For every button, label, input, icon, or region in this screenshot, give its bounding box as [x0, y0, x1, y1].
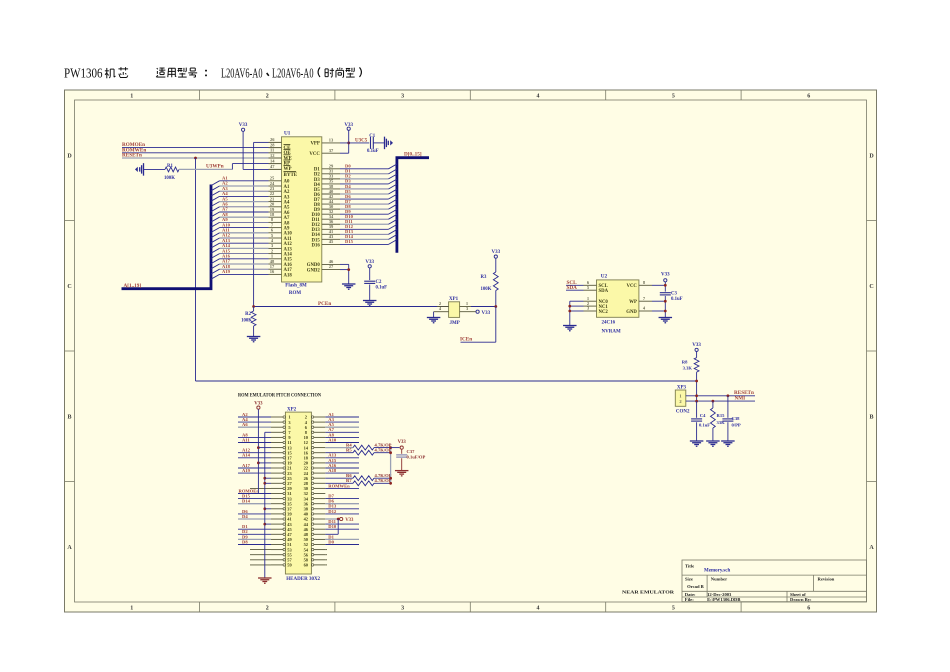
- XP2 pin 51: [271, 544, 283, 546]
- svg-text:3: 3: [401, 94, 404, 100]
- XP2 pin 52: [311, 543, 313, 545]
- svg-text:U1: U1: [284, 131, 291, 137]
- bus A[1..19]: [122, 185, 212, 289]
- XP2 pin 28: [311, 482, 313, 484]
- junction GND2: [347, 268, 350, 271]
- bus entry and wire A14: [211, 248, 220, 253]
- wire and bus entry D7: [340, 203, 389, 205]
- wire right D12: [325, 513, 359, 515]
- XP2 unconnected stub left: [250, 549, 271, 551]
- ground below R15: [706, 440, 720, 442]
- svg-text:XP1: XP1: [449, 297, 459, 302]
- bus entry and wire A8: [211, 217, 220, 222]
- wire right A18: [325, 472, 359, 474]
- U1 pin 18 A7: [269, 216, 282, 218]
- svg-text:D15: D15: [345, 239, 354, 244]
- U1 pin 34 D11: [322, 218, 340, 220]
- XP2 pin 33: [271, 498, 283, 500]
- U2 pin 5 SDA: [584, 289, 597, 291]
- wire rail to V33: [391, 447, 400, 449]
- U1 pin 17 A17: [269, 268, 282, 270]
- title block frame: [682, 560, 867, 602]
- svg-text:6: 6: [807, 94, 810, 100]
- svg-text:A10: A10: [328, 437, 337, 442]
- U1 pin 22 A3: [269, 195, 282, 197]
- U1 pin 31 D2: [322, 173, 340, 175]
- svg-text:Orcad B: Orcad B: [687, 584, 704, 589]
- svg-text:16: 16: [270, 269, 275, 274]
- bus entry and wire A19: [211, 274, 220, 279]
- svg-text:NEAR EMULATOR: NEAR EMULATOR: [622, 590, 675, 595]
- wire row7 to vertical: [258, 447, 271, 449]
- U1 pin 48 A16: [269, 263, 282, 265]
- wire left ROMOEn: [238, 493, 271, 495]
- svg-text:SDA: SDA: [599, 289, 609, 294]
- net SDA wire: [566, 289, 584, 291]
- svg-text:NC2: NC2: [599, 310, 609, 315]
- U1 pin 16 A18: [269, 273, 282, 275]
- junction row14: [263, 482, 266, 485]
- svg-text:0/PP: 0/PP: [732, 423, 741, 428]
- XP2 unconnected stub right: [325, 564, 327, 566]
- junction pullup row7: [389, 446, 392, 449]
- XP2 pin 10: [311, 436, 313, 438]
- XP2 unconnected stub right: [325, 554, 327, 556]
- wire left A6: [238, 426, 271, 428]
- sheet inner border: [75, 100, 867, 602]
- wire left A8: [238, 436, 271, 438]
- U1 pin 19 A6: [269, 211, 282, 213]
- svg-text:A14: A14: [242, 453, 251, 458]
- wire VPP to C1: [340, 142, 369, 144]
- svg-text:R15: R15: [717, 413, 726, 418]
- wire right D10: [325, 528, 359, 530]
- XP1 pin 2: [437, 306, 449, 308]
- junction row13: [263, 477, 266, 480]
- XP2 pin 26: [311, 477, 313, 479]
- svg-text:0.1uF: 0.1uF: [699, 423, 710, 428]
- svg-text:E:\PW1306.DDB: E:\PW1306.DDB: [707, 597, 740, 602]
- wire and bus entry D11: [340, 223, 389, 225]
- XP2 pin 19: [271, 462, 283, 464]
- svg-text:B: B: [869, 414, 873, 420]
- junction pullup row13: [389, 477, 392, 480]
- bus entry and wire A12: [211, 238, 220, 243]
- svg-text:VCC: VCC: [626, 284, 637, 289]
- ground right of C1: [384, 137, 386, 150]
- junction long RESETn wire: [695, 380, 698, 383]
- U2 pin 6 SCL: [584, 284, 597, 286]
- XP2 unconnected stub left: [250, 564, 271, 566]
- net PCEn wire: [254, 306, 449, 308]
- U1 pin 47 BYTE: [269, 168, 282, 170]
- svg-text:47: 47: [270, 164, 275, 169]
- XP2 pin 36: [311, 503, 313, 505]
- wire right A7: [325, 431, 359, 433]
- wire U3WPn step up to WP pin: [231, 164, 233, 170]
- XP2 pin 50: [311, 538, 313, 540]
- XP2 pin 45: [271, 528, 283, 530]
- XP2 pin 7: [271, 431, 283, 433]
- XP2 pin 17: [271, 457, 283, 459]
- wire and bus entry D8: [340, 208, 389, 210]
- bus entry and wire A10: [211, 228, 220, 233]
- U1 pin 46 GND0: [322, 263, 340, 265]
- svg-text:WP: WP: [629, 300, 637, 305]
- svg-text:U3C5: U3C5: [355, 138, 368, 143]
- U2 pin 4 GND: [639, 310, 652, 312]
- XP2 pin 31: [271, 493, 283, 495]
- junction pullup row14: [389, 482, 392, 485]
- U1 pin 14 WP: [269, 163, 282, 165]
- XP2 pin 55: [271, 554, 283, 556]
- wire and bus entry D9: [340, 213, 389, 215]
- svg-text:PCEn: PCEn: [318, 301, 331, 307]
- wire right A16: [325, 467, 359, 469]
- svg-text:XP2: XP2: [287, 408, 297, 413]
- wire down to ICEn: [495, 307, 497, 343]
- svg-text:Revision: Revision: [818, 577, 835, 582]
- wire and bus entry D15: [340, 243, 389, 245]
- wire right A5: [325, 426, 359, 428]
- svg-text:4: 4: [537, 94, 540, 100]
- wire and bus entry D13: [340, 233, 389, 235]
- svg-text:A18: A18: [328, 468, 337, 473]
- svg-text:D16: D16: [312, 243, 321, 248]
- XP2 pin 13: [271, 447, 283, 449]
- U1 pin 20 A5: [269, 206, 282, 208]
- svg-text:RESETn: RESETn: [122, 153, 142, 159]
- XP2 unconnected stub pin29: [250, 487, 271, 489]
- XP1 pin 3: [460, 311, 476, 313]
- svg-text:V33: V33: [345, 518, 354, 523]
- svg-text:5: 5: [672, 606, 675, 612]
- XP2 pin 42: [311, 518, 313, 520]
- svg-text:NVRAM: NVRAM: [602, 330, 621, 335]
- U1 pin 2 A14: [269, 253, 282, 255]
- svg-text:3: 3: [401, 606, 404, 612]
- svg-text:100K: 100K: [164, 176, 175, 181]
- wire right D13: [325, 508, 359, 510]
- U1 pin 36 D12: [322, 223, 340, 225]
- wire and bus entry D1: [340, 173, 389, 175]
- XP2 pin 1: [271, 416, 283, 418]
- U1 pin 3 A13: [269, 247, 282, 249]
- XP2 pin 53: [271, 549, 283, 551]
- svg-text:C: C: [869, 284, 873, 290]
- svg-text:SDA: SDA: [567, 285, 578, 291]
- XP2 pin 30: [311, 487, 313, 489]
- svg-text:A[1..19]: A[1..19]: [124, 283, 142, 289]
- svg-text:U2: U2: [601, 274, 608, 280]
- svg-text:12: 12: [270, 153, 275, 158]
- svg-text:1: 1: [130, 606, 133, 612]
- XP2 pin 58: [311, 559, 313, 561]
- U1 pin 23 A2: [269, 190, 282, 192]
- connector XP3 body: [675, 390, 686, 406]
- junction NC1: [568, 305, 571, 308]
- wire right A13: [325, 457, 359, 459]
- svg-text:Drawn By:: Drawn By:: [790, 597, 812, 602]
- U2 pin 1 NC0: [584, 300, 597, 302]
- XP2 pin 38: [311, 508, 313, 510]
- U1 pin 40 D6: [322, 193, 340, 195]
- XP2 pin 54: [311, 548, 313, 550]
- junction GND: [664, 310, 667, 313]
- XP2 pin 23: [271, 472, 283, 474]
- wire left D4: [238, 518, 271, 520]
- XP2 pin 20: [311, 462, 313, 464]
- XP2 pin 27: [271, 482, 283, 484]
- svg-text:GND: GND: [626, 310, 637, 315]
- svg-text:100K: 100K: [241, 318, 252, 323]
- svg-text:100K: 100K: [481, 287, 492, 292]
- svg-text:Flash_8M: Flash_8M: [285, 284, 307, 289]
- XP2 pin 44: [311, 523, 313, 525]
- resistor R2: [253, 307, 255, 312]
- U2 pin 3 NC2: [584, 310, 597, 312]
- svg-text:R3: R3: [481, 275, 487, 280]
- ground below C2: [363, 300, 377, 302]
- wire right ROMWEn: [325, 487, 359, 489]
- wire RESETn long horizontal to XP3: [196, 380, 697, 382]
- svg-text:V33: V33: [692, 343, 701, 348]
- U1 pin 30 D9: [322, 208, 340, 210]
- XP2 pin 21: [271, 467, 283, 469]
- junction XP1 pin1 R3: [494, 305, 497, 308]
- resistor R7: [325, 482, 353, 484]
- svg-text:ICEn: ICEn: [460, 337, 472, 343]
- svg-text:C3: C3: [671, 292, 677, 297]
- svg-text:B: B: [67, 414, 71, 420]
- U1 pin 25 A0: [269, 180, 282, 182]
- svg-text:C4: C4: [700, 413, 706, 418]
- bus entry and wire A17: [211, 264, 220, 269]
- XP2 pin 24: [311, 472, 313, 474]
- wire left D15: [238, 498, 271, 500]
- ground below C37 dark red: [395, 470, 409, 472]
- svg-text:A11: A11: [242, 437, 250, 442]
- svg-text:L20AV6-A0: L20AV6-A0: [272, 66, 314, 81]
- U1 pin 21 A4: [269, 201, 282, 203]
- wire and bus entry D5: [340, 193, 389, 195]
- svg-text:V33: V33: [239, 123, 248, 128]
- svg-text:C38: C38: [732, 416, 741, 421]
- ground below C38: [721, 440, 735, 442]
- XP2 pin 57: [271, 559, 283, 561]
- power V33 at XP1 pin3: [476, 310, 479, 313]
- resistor R3: [495, 258, 497, 272]
- U1 pin 38 D5: [322, 188, 340, 190]
- wire left D2: [238, 533, 271, 535]
- ground below XP2 dark red: [258, 577, 272, 579]
- wire left A11: [238, 442, 271, 444]
- wire left A2: [238, 416, 271, 418]
- junction PCEn: [252, 305, 255, 308]
- svg-text:R2: R2: [245, 312, 251, 317]
- wire right A3: [325, 421, 359, 423]
- svg-text:VPP: VPP: [310, 142, 319, 147]
- svg-text:R8: R8: [682, 359, 688, 364]
- svg-text:4.7K/OP: 4.7K/OP: [375, 478, 392, 483]
- U1 pin 43 D15: [322, 238, 340, 240]
- svg-text:A19: A19: [222, 269, 231, 274]
- bus entry and wire A9: [211, 222, 220, 227]
- U2 pin 8 VCC: [639, 284, 652, 286]
- junction on RESETn: [194, 157, 197, 160]
- XP1 pin 4: [434, 311, 449, 313]
- svg-text:27: 27: [329, 264, 334, 269]
- wire left A19: [238, 472, 271, 474]
- svg-text:37: 37: [329, 148, 334, 153]
- svg-text:Number: Number: [711, 577, 727, 582]
- wire and bus entry D12: [340, 228, 389, 230]
- XP2 pin 3: [271, 421, 283, 423]
- bus D[0..15]: [397, 158, 429, 253]
- U1 pin 11 WE: [269, 152, 282, 154]
- bus entry and wire A11: [211, 233, 220, 238]
- XP2 unconnected stub left: [250, 559, 271, 561]
- wire left A17: [238, 467, 271, 469]
- svg-text:C2: C2: [376, 280, 382, 285]
- connector XP2 body: [285, 412, 311, 574]
- svg-text:ROM EMULATOR PITCH CONNECTION: ROM EMULATOR PITCH CONNECTION: [238, 393, 321, 399]
- capacitor C37: [401, 449, 403, 454]
- XP2 pin 18: [311, 457, 313, 459]
- XP2 pin 29: [271, 487, 283, 489]
- XP2 pin 32: [311, 492, 313, 494]
- U1 pin 4 A12: [269, 242, 282, 244]
- bus entry and wire A5: [211, 202, 220, 207]
- wire and bus entry D2: [340, 178, 389, 180]
- sheet background: [65, 90, 877, 612]
- op-amp U1 body: [282, 137, 322, 282]
- bus entry and wire A7: [211, 212, 220, 217]
- capacitor C4: [696, 401, 698, 418]
- resistor R8: [696, 352, 698, 358]
- wire VCC WP GND to V33 rail: [652, 284, 665, 286]
- XP2 pin 5: [271, 426, 283, 428]
- bus entry and wire A16: [211, 259, 220, 264]
- wire left A14: [238, 457, 271, 459]
- junction NC2: [568, 310, 571, 313]
- XP2 pin 34: [311, 497, 313, 499]
- U1 pin 39 D13: [322, 228, 340, 230]
- XP2 pin 4: [311, 421, 313, 423]
- capacitor C1: [370, 137, 372, 149]
- wire right D1: [325, 538, 359, 540]
- svg-text:A: A: [869, 545, 874, 551]
- svg-text:14: 14: [270, 158, 275, 163]
- resistor R1: [144, 168, 166, 170]
- U1 pin 35 D4: [322, 183, 340, 185]
- wire right A15: [325, 462, 359, 464]
- junction WP: [664, 300, 667, 303]
- svg-text:45: 45: [329, 239, 334, 244]
- ground left of R1: [143, 163, 145, 176]
- U1 pin 26 CE: [269, 141, 282, 143]
- svg-text:BYTE: BYTE: [284, 173, 298, 178]
- bus entry and wire A1: [211, 181, 220, 186]
- U1 pin 33 D3: [322, 178, 340, 180]
- svg-text:C37: C37: [407, 449, 416, 454]
- wire V33 down to BYTE pin: [242, 131, 244, 169]
- wire V33 to VPP VCC: [348, 130, 350, 153]
- U1 pin 7 A9: [269, 227, 282, 229]
- U1 pin 5 A11: [269, 237, 282, 239]
- svg-text:4.7K/OP: 4.7K/OP: [375, 448, 392, 453]
- svg-text:ROM: ROM: [289, 291, 302, 296]
- svg-text:A: A: [67, 545, 72, 551]
- U1 pin 29 D1: [322, 168, 340, 170]
- XP2 pin 41: [271, 518, 283, 520]
- XP2 pin 35: [271, 503, 283, 505]
- XP2 pin 46: [311, 528, 313, 530]
- ground below U1: [342, 283, 356, 285]
- XP2 pin 12: [311, 441, 313, 443]
- wire pin48 to V33: [337, 519, 339, 534]
- ground below C3: [659, 317, 673, 319]
- resistor R6: [325, 477, 353, 479]
- svg-text:2: 2: [266, 606, 269, 612]
- wire left D9: [238, 538, 271, 540]
- wire and bus entry D3: [340, 183, 389, 185]
- wire right D6: [325, 503, 359, 505]
- svg-text:D0: D0: [328, 539, 334, 544]
- U1 pin 37 VCC: [322, 152, 340, 154]
- wire CE to PCEn vertical: [254, 141, 269, 143]
- U1 pin 1 A15: [269, 258, 282, 260]
- wires NC0 NC1 NC2 to ground: [570, 300, 584, 302]
- svg-text:V33: V33: [398, 440, 407, 445]
- svg-text:V33: V33: [482, 311, 491, 316]
- svg-text:R5: R5: [346, 448, 352, 453]
- ground below R2: [247, 336, 261, 338]
- U2 pin 2 NC1: [584, 305, 597, 307]
- XP2 pin 43: [271, 523, 283, 525]
- XP2 pin 48: [311, 533, 313, 535]
- svg-text:A19: A19: [242, 468, 251, 473]
- XP2 pin 39: [271, 513, 283, 515]
- wire left A12: [238, 452, 271, 454]
- svg-text:D4: D4: [242, 514, 248, 519]
- ground below XP1 pin4: [427, 317, 441, 319]
- XP2 pin 25: [271, 477, 283, 479]
- wire pin4 to ground: [433, 312, 435, 318]
- wire V33 down left of XP2: [257, 409, 259, 493]
- svg-text:D10: D10: [328, 524, 337, 529]
- wire and bus entry D10: [340, 218, 389, 220]
- bus entry and wire A4: [211, 196, 220, 201]
- wire left D8: [238, 544, 271, 546]
- XP2 pin 56: [311, 554, 313, 556]
- U1 pin 45 D16: [322, 243, 340, 245]
- XP2 unconnected stub left: [250, 554, 271, 556]
- svg-text:6: 6: [807, 606, 810, 612]
- XP2 pin 8: [311, 431, 313, 433]
- U1 pin 44 D8: [322, 203, 340, 205]
- svg-text:R7: R7: [346, 478, 352, 483]
- svg-text:Title: Title: [685, 564, 694, 569]
- svg-text:R1: R1: [167, 164, 173, 169]
- wire and bus entry D6: [340, 198, 389, 200]
- junction pin1 rail: [695, 394, 698, 397]
- XP2 pin 6: [311, 426, 313, 428]
- svg-text:C: C: [67, 284, 71, 290]
- junction VCC: [664, 284, 667, 287]
- pullup rail vertical: [390, 448, 392, 484]
- XP2 pin 59: [271, 564, 283, 566]
